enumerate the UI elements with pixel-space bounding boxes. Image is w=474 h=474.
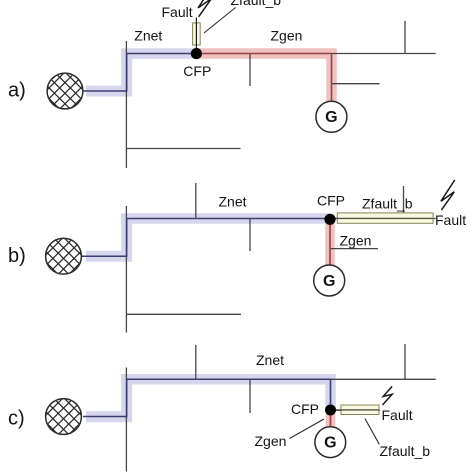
svg-text:Znet: Znet: [219, 193, 247, 209]
svg-text:Zfault_b: Zfault_b: [231, 0, 282, 8]
svg-text:G: G: [325, 109, 337, 126]
svg-text:Znet: Znet: [134, 28, 162, 44]
svg-text:Fault: Fault: [382, 407, 413, 423]
svg-text:CFP: CFP: [183, 63, 211, 79]
svg-text:CFP: CFP: [317, 193, 345, 209]
svg-text:CFP: CFP: [291, 401, 319, 417]
svg-text:b): b): [8, 245, 26, 267]
svg-text:a): a): [8, 80, 26, 102]
svg-text:Znet: Znet: [256, 352, 284, 368]
svg-text:c): c): [8, 408, 25, 430]
svg-text:Zfault_b: Zfault_b: [362, 195, 413, 211]
svg-text:Fault: Fault: [162, 4, 193, 20]
svg-text:Zgen: Zgen: [255, 433, 287, 449]
svg-text:Zgen: Zgen: [340, 232, 372, 248]
svg-text:G: G: [323, 273, 335, 290]
svg-text:G: G: [324, 435, 336, 452]
svg-text:Fault: Fault: [435, 212, 466, 228]
svg-text:Zgen: Zgen: [271, 28, 303, 44]
svg-text:Zfault_b: Zfault_b: [380, 443, 431, 459]
